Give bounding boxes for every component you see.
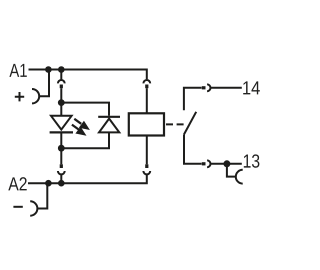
plug pin (module feed, top): [60, 85, 63, 89]
wire A2 rail (horizontal) with corner up to coil plug: [28, 174, 147, 183]
plug pin (coil feed, top): [145, 85, 148, 89]
wire minus clamp up to A2 rail: [37, 183, 47, 208]
plug socket arc (coil feed, top): [143, 80, 150, 83]
LED indicator: diode triangle: [51, 116, 72, 130]
wire plus clamp up to A1 rail: [39, 70, 49, 97]
wire top junction to freewheel diode: [61, 103, 109, 116]
plug socket arc (contact 13): [207, 160, 210, 167]
cage clamp terminal (+): [32, 89, 39, 103]
wire bottom junction down to plug: [60, 148, 62, 164]
plug socket arc (module return, bottom): [58, 171, 65, 174]
LED emission arrow 1: [74, 119, 88, 129]
LED cathode bar: [50, 131, 73, 133]
node: LED / freewheel-diode top junction: [58, 99, 65, 106]
plug pin (module return, bottom): [60, 164, 63, 168]
junction node terminal 13 / clamp branch: [223, 160, 230, 167]
freewheel diode cathode bar: [98, 116, 120, 118]
wire plug down to coil: [146, 88, 148, 113]
plug pin (contact 13): [202, 162, 206, 165]
junction node A2 / minus-clamp branch: [45, 180, 52, 187]
wire freewheel diode down and left to bottom junction: [61, 132, 109, 148]
junction node A1 / plus-clamp branch: [45, 66, 52, 73]
terminal label 13: [244, 154, 260, 167]
wire A1 node down to plug: [60, 70, 62, 80]
wire plug to terminal 14: [211, 87, 242, 89]
contact fixed terminal (to 14): [184, 88, 202, 111]
wire plug down to LED node: [60, 88, 62, 102]
relay coil K1: [129, 113, 164, 135]
terminal label A1: [9, 64, 26, 77]
node: LED / freewheel-diode bottom junction: [58, 145, 65, 152]
wire plug down to A2 rail: [60, 174, 62, 183]
terminal label A2: [8, 177, 26, 190]
terminal label 14: [243, 81, 260, 94]
plug pin (coil return, bottom): [145, 164, 148, 168]
LED emission arrow 2: [72, 125, 85, 135]
freewheel diode triangle (pointing up): [99, 119, 119, 133]
junction node A2 / LED branch: [58, 180, 65, 187]
cage clamp terminal (-): [30, 201, 37, 215]
wire coil bottom to plug: [146, 136, 148, 165]
contact common terminal wire (to 13): [184, 134, 202, 163]
wire top junction down to LED: [60, 103, 62, 116]
mechanical link coil to contact (dashed): [166, 123, 184, 125]
plug socket arc (module feed, top): [58, 80, 65, 83]
wire plug to terminal 13: [211, 163, 242, 165]
plug socket arc (contact 14): [207, 84, 210, 91]
wire A1 rail (horizontal) with corner down to coil plug: [29, 70, 147, 80]
wire LED down to bottom junction: [60, 133, 62, 148]
plus polarity mark: [15, 92, 24, 101]
minus polarity mark: [13, 206, 22, 208]
plug socket arc (coil return, bottom): [143, 171, 150, 174]
plug pin (contact 14): [202, 86, 206, 89]
cage clamp terminal (13): [236, 170, 243, 184]
wire 13 node down to cage clamp: [227, 164, 237, 177]
junction node A1 / LED branch: [58, 66, 65, 73]
contact moving blade (NO contact): [184, 112, 196, 135]
